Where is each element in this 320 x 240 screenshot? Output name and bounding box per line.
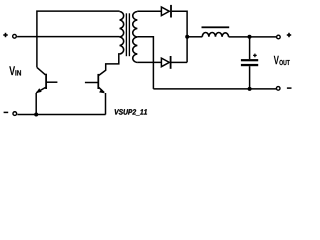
capacitor C1 top lead: [249, 37, 251, 59]
input minus sign: [4, 111, 9, 113]
transistor Q2 emitter lead with arrow: [99, 87, 104, 92]
junction dot: Q1 emitter on bottom rail: [34, 113, 38, 117]
caption VSUP2_11: [115, 109, 147, 115]
capacitor C1 bottom lead: [249, 66, 251, 89]
wire: secondary bottom to D2 anode: [137, 61, 161, 63]
wire: secondary tap to crossing vertical: [137, 37, 153, 89]
transistor Q2 collector lead (staircase to primary bottom): [99, 54, 120, 76]
transformer T1 secondary winding (6 loops, tap junction at y=37): [133, 12, 138, 63]
transistor Q1 emitter lead with arrow: [36, 87, 45, 92]
transistor Q2 base lead: [85, 82, 98, 84]
junction dot: capacitor top: [248, 35, 252, 39]
diode D1: [161, 7, 169, 16]
VIN label: [9, 66, 21, 75]
capacitor polarity plus: [253, 54, 257, 58]
transistor Q2 base bar: [97, 74, 99, 89]
junction dot: capacitor bottom: [248, 87, 252, 91]
input plus sign: [3, 33, 7, 37]
wire: secondary top to D1 anode: [137, 10, 161, 12]
wire: +VIN to transformer primary center tap: [17, 36, 120, 38]
inductor L1 (4 loops): [202, 32, 228, 36]
capacitor C1 plates: [241, 59, 258, 61]
transformer T1 core: [125, 13, 127, 56]
junction dot: rectifier output node: [185, 35, 189, 39]
output positive terminal: [277, 35, 281, 39]
wire: output return rail: [153, 88, 276, 90]
transistor Q1 base lead: [46, 81, 57, 83]
input positive terminal: [13, 34, 17, 38]
output plus sign: [287, 33, 291, 37]
wire: D2 cathode to rectifier node vertical: [172, 61, 188, 63]
transistor Q1 collector lead: [37, 67, 46, 74]
diode D2: [161, 58, 169, 67]
wire: bottom rail from -VIN to Q2 emitter: [17, 114, 105, 116]
input negative terminal: [13, 112, 17, 116]
VOUT label: [274, 56, 290, 65]
output minus sign: [287, 87, 292, 89]
wire: D1 cathode down to rectifier node: [172, 11, 187, 62]
transformer T1 primary winding (5 loops, tap junction at y=37): [120, 12, 124, 55]
transistor Q1 base bar: [45, 74, 47, 89]
output negative terminal: [276, 87, 280, 91]
inductor L1 core bar: [202, 26, 230, 28]
wire: inductor to output positive terminal: [229, 36, 277, 38]
wire: node to inductor: [187, 36, 202, 38]
wire: top rail from Q1 collector to primary top: [37, 11, 120, 67]
